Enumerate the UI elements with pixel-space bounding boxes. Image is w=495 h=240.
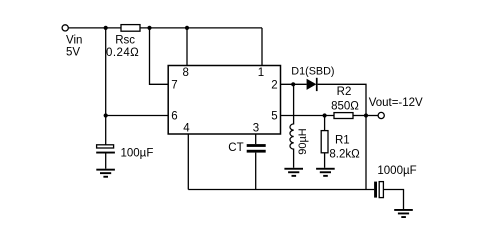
ground below 100uF (96, 169, 115, 178)
wire R2 to Vout node (353, 115, 366, 117)
terminal Vin (62, 25, 68, 31)
op-amp U1 (converter IC body) (168, 66, 280, 135)
wire pin 4 (187, 134, 189, 190)
wire pin 8 (186, 28, 188, 66)
wire R1 upper lead (324, 116, 326, 131)
capacitor CT plates (247, 144, 266, 153)
svg-text:90µH: 90µH (297, 128, 309, 155)
node junction at input rail (104, 26, 108, 30)
wire cap to ground drop (383, 190, 404, 210)
resistor Rsc (121, 25, 140, 32)
svg-text:1: 1 (258, 67, 264, 79)
svg-text:6: 6 (171, 110, 177, 122)
svg-text:4: 4 (183, 123, 190, 135)
wire left rail down (105, 28, 107, 145)
inductor L1 lead and coil (290, 84, 294, 168)
svg-text:R2: R2 (337, 86, 352, 98)
wire top rail (140, 27, 262, 29)
diode D1 triangle (307, 79, 317, 90)
svg-text:Rsc: Rsc (115, 34, 135, 46)
wire cap to ground (105, 154, 107, 169)
svg-text:Vin: Vin (66, 35, 82, 47)
svg-text:R1: R1 (335, 135, 350, 147)
node junction pin8 tap (185, 26, 189, 30)
ground below R1 (316, 168, 335, 177)
wire to Vout terminal (366, 115, 378, 117)
capacitor 100uF bottom plate (96, 152, 115, 154)
node junction pin7 tap (147, 26, 151, 30)
resistor R1 (321, 131, 328, 153)
wire CT to bottom rail (255, 153, 257, 190)
wire pin 3 (255, 134, 257, 144)
wire pin 2 (281, 83, 307, 85)
ground below 1000uF (394, 209, 413, 218)
svg-text:7: 7 (171, 79, 177, 91)
svg-text:850Ω: 850Ω (331, 100, 359, 112)
svg-text:Vout=-12V: Vout=-12V (369, 97, 423, 109)
wire Vin to Rsc (68, 27, 121, 29)
svg-text:D1(SBD): D1(SBD) (291, 65, 334, 77)
svg-text:3: 3 (253, 123, 259, 135)
node junction diode anode (291, 82, 295, 86)
wire pin 7 (150, 28, 169, 84)
node junction Vout (364, 113, 368, 117)
terminal Vout (378, 112, 384, 118)
svg-text:100µF: 100µF (121, 147, 154, 159)
svg-text:8: 8 (182, 67, 188, 79)
svg-text:2: 2 (271, 79, 277, 91)
node junction R1 tap (323, 113, 327, 117)
ground below inductor (284, 168, 303, 177)
wire pin 1 (261, 28, 263, 66)
resistor R2 (334, 113, 353, 119)
svg-text:5V: 5V (66, 46, 80, 58)
svg-text:1000µF: 1000µF (377, 165, 416, 177)
wire R1 lower lead (324, 153, 326, 168)
svg-text:8.2kΩ: 8.2kΩ (329, 149, 360, 161)
wire bottom rail (188, 189, 374, 191)
wire pin 6 (106, 115, 169, 117)
wire pin 5 (281, 115, 335, 117)
svg-text:0.24Ω: 0.24Ω (106, 47, 139, 59)
capacitor 1000uF left plate (374, 182, 377, 198)
diode D1 cathode bar (316, 78, 318, 91)
capacitor 100uF top plate (97, 145, 114, 148)
capacitor 1000uF right plate (379, 182, 383, 198)
svg-text:5: 5 (271, 110, 277, 122)
wire diode to corner (318, 84, 366, 189)
node junction pin6 (104, 113, 108, 117)
svg-text:CT: CT (228, 142, 243, 154)
